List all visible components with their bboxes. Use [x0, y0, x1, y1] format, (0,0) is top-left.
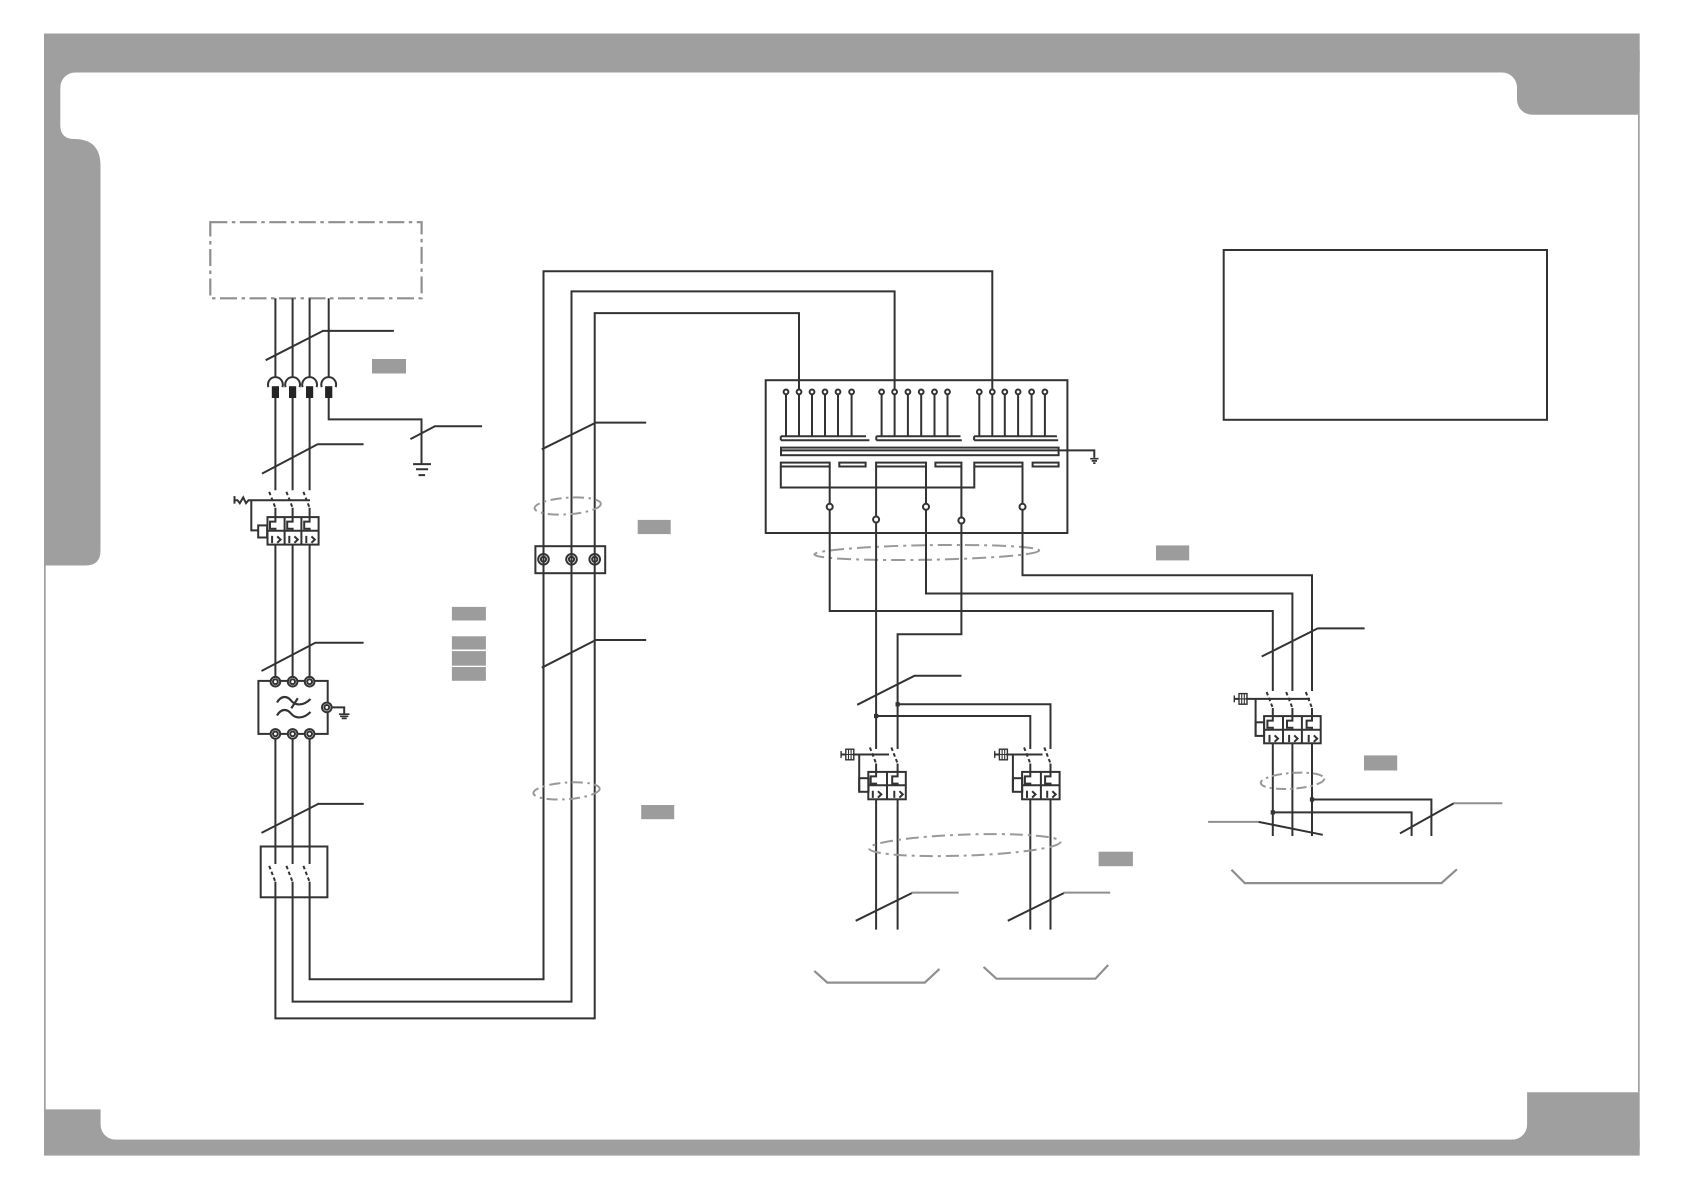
label box (redacted) output cable [1156, 545, 1189, 560]
Q2 thermal + magnetic pole 1 [871, 772, 882, 798]
wire output 5 to right breaker [1023, 510, 1313, 691]
fuse F1 [268, 377, 283, 398]
branch wire to pump2 breaker pole 1 [876, 716, 1030, 749]
breaker Q2 blade pole 1 [870, 748, 876, 764]
cable annotation slash (3-wire to main switch) [262, 444, 364, 473]
breaker Q4 box [1264, 716, 1321, 743]
wire L2 from supply [292, 298, 294, 377]
wire L1 filter to contactor [274, 739, 276, 864]
relay block strip 5 [974, 463, 1022, 467]
Q1 thermal + magnetic elements pole 2 [287, 517, 298, 543]
main switch Q1 blade pole 2 [286, 492, 292, 508]
board pin group 1 circles [784, 390, 789, 395]
label box (redacted) riser lower [641, 805, 674, 819]
breaker Q3 linkage [1012, 755, 1014, 792]
Q1 thermal + magnetic elements pole 3 [304, 517, 315, 543]
cable annotation slash below filter [262, 804, 364, 833]
bus bar group 3 [974, 436, 1058, 440]
Q4 thermal + magnetic pole 1 [1267, 716, 1278, 742]
junction node pump2 feed [874, 714, 878, 718]
label box (redacted) switch column 4 [452, 667, 486, 681]
breaker Q2 connector symbol [841, 749, 854, 760]
ferrite ellipse fan cable [1260, 771, 1325, 791]
contactor K1 blade pole 1 [269, 866, 275, 882]
wire Q3 pole 1 down [1029, 799, 1031, 929]
Q1 thermal + magnetic elements pole 1 [270, 517, 281, 543]
cable annotation slash (pump1 feed) [857, 676, 961, 705]
bracket pump1 [814, 969, 939, 983]
main switch Q1 trip unit box [268, 517, 319, 545]
relay block strip 6 [1033, 463, 1059, 467]
bus bar group 1 [781, 436, 870, 440]
wire L3 fuse to main switch [309, 398, 311, 490]
wire Q4 pole 2 down [1291, 743, 1293, 836]
relay block strip 1 [781, 463, 830, 467]
label box (redacted) fan cable [1364, 755, 1397, 770]
junction node fan branch lower [1271, 810, 1275, 814]
wire L2 fuse to main switch [292, 398, 294, 490]
board pin group 1 stems [786, 394, 852, 436]
EMI filter earth wire and ground [332, 707, 345, 714]
wire L2 contactor down and across [293, 291, 895, 1001]
contactor K1 blade pole 3 [303, 866, 309, 882]
wire L1 switch to filter [274, 545, 276, 677]
breaker Q4 blade pole 3 [1306, 692, 1312, 708]
wire L3 switch to filter [309, 545, 311, 677]
wire N to earth [329, 398, 422, 464]
wire Q4 pole 1 down [1272, 743, 1274, 836]
wire output 3 to right breaker [926, 510, 1292, 691]
bracket pump2 [984, 965, 1109, 979]
junction node fan branch upper [1310, 797, 1314, 801]
wire Q2 pole 2 down [897, 799, 899, 929]
breaker Q3 blade pole 1 [1024, 748, 1030, 764]
relay outline lower [781, 467, 975, 488]
control board A1 outline [766, 380, 1068, 533]
bracket fans [1231, 869, 1457, 883]
terminal block X1 [535, 546, 605, 573]
breaker Q4 blade pole 1 [1267, 692, 1273, 708]
contactor K1 blade pole 2 [286, 866, 292, 882]
Q3 thermal + magnetic pole 2 [1045, 772, 1056, 798]
label box (redacted) riser upper [638, 520, 671, 534]
main switch Q1 linkage [251, 500, 258, 530]
main switch Q1 blade pole 1 [269, 492, 275, 508]
EMI filter box [258, 681, 327, 734]
branch wire fan lower [1273, 812, 1412, 836]
board output pin circles [827, 504, 833, 510]
breaker Q3 connector symbol [995, 749, 1008, 760]
junction node pump1 feed [896, 702, 900, 706]
ferrite sleeve ellipse (riser lower) [533, 780, 600, 801]
breaker Q4 blade stubs [1273, 708, 1312, 716]
wire L1 from supply [274, 298, 276, 377]
wire Q3 pole 2 down [1050, 799, 1052, 929]
cable annotation slash above filter [262, 643, 364, 671]
Q2 thermal + magnetic pole 2 [892, 772, 903, 798]
mains supply box (dash-dot) [210, 222, 421, 298]
board pin group 3 stems [979, 394, 1045, 436]
cable annotation slash (riser lower) [542, 640, 646, 668]
PE bus ground tap [1059, 450, 1095, 457]
EMI filter input terminals [271, 677, 281, 687]
wire L3 from supply [309, 298, 311, 377]
wire output 2 down [875, 523, 877, 750]
wire Q4 pole 3 down [1311, 743, 1313, 836]
EMI filter earth terminal [322, 703, 332, 713]
board pin group 3 circles [977, 390, 982, 395]
breaker Q2 blade pole 2 [891, 748, 897, 764]
board pin group 2 stems [882, 394, 948, 436]
relay block strip 3 [876, 463, 926, 467]
output cable ferrite ellipse (wide) [814, 543, 1039, 562]
relay block strip 4 [935, 463, 961, 467]
bus bar group 2 [876, 436, 962, 440]
wire output 4 jog [898, 524, 962, 750]
label box (redacted) switch column 3 [452, 651, 486, 666]
breaker Q4 linkage [1255, 699, 1257, 736]
label box (redacted) pumps cable [1099, 852, 1133, 867]
branch wire to pump2 breaker pole 2 [898, 704, 1051, 749]
breaker Q3 blade stubs [1030, 764, 1050, 772]
legend box [1224, 250, 1547, 420]
annotation slash on earth wire [410, 426, 482, 439]
annotation line and slash (fan group left) [1208, 821, 1259, 823]
cable annotation slash pump1 [856, 893, 912, 921]
wire L2 switch to filter [292, 545, 294, 677]
relay block strip 2 [839, 463, 865, 467]
ferrite sleeve ellipse (riser upper) [534, 495, 601, 516]
breaker Q3 box [1022, 772, 1060, 799]
label box (redacted) supply cable [372, 359, 406, 374]
EMI filter wave symbol [277, 697, 311, 704]
cable annotation slash (4-wire supply cable) [266, 331, 394, 360]
wire L2 filter to contactor [292, 739, 294, 864]
breaker Q2 box [868, 772, 906, 799]
branch wire fan upper [1312, 800, 1431, 837]
breaker Q4 blade pole 2 [1286, 692, 1292, 708]
contactor K1 box [261, 847, 328, 898]
fuse F3 [302, 377, 317, 398]
wire N from supply [328, 298, 330, 377]
cable annotation slash (riser upper) [542, 423, 646, 450]
breaker Q2 trip line [841, 754, 889, 756]
wire L3 filter to contactor [309, 739, 311, 864]
breaker Q3 blade pole 2 [1044, 748, 1050, 764]
wire L3 contactor down and across [275, 313, 799, 1018]
long PE bus bar [781, 448, 1059, 456]
breaker Q4 connector symbol [1234, 694, 1247, 705]
breaker Q2 linkage [858, 755, 860, 792]
wire Q2 pole 1 down [875, 799, 877, 929]
cable annotation slash (fan feed) [1262, 628, 1365, 656]
Q4 thermal + magnetic pole 2 [1287, 716, 1298, 742]
main switch Q1 blade stubs [275, 508, 309, 517]
wire L1 fuse to main switch [274, 398, 276, 490]
board output stub wires [830, 467, 1023, 518]
fuse F4 (neutral) [321, 377, 336, 398]
annotation slash (fan group right) [1400, 803, 1454, 833]
label box (redacted) switch column 2 [452, 636, 486, 649]
EMI filter output terminals [271, 729, 281, 739]
wire output 1 to right breaker [830, 510, 1273, 691]
wire L1 contactor down and across [310, 271, 993, 979]
ferrite ellipse pumps cable [869, 831, 1061, 859]
earth ground symbol (neutral) [413, 464, 431, 475]
Q3 thermal + magnetic pole 1 [1025, 772, 1036, 798]
breaker Q4 trip line [1235, 698, 1310, 700]
fuse F2 [285, 377, 300, 398]
main switch Q1 operating handle zigzag [235, 496, 311, 504]
breaker Q2 blade stubs [876, 764, 898, 772]
cable annotation slash pump2 [1008, 893, 1064, 921]
main switch Q1 blade pole 3 [303, 492, 309, 508]
label box (redacted) switch column 1 [452, 607, 486, 621]
breaker Q3 trip line [995, 754, 1043, 756]
Q4 thermal + magnetic pole 3 [1307, 716, 1318, 742]
board pin group 2 circles [879, 390, 884, 395]
